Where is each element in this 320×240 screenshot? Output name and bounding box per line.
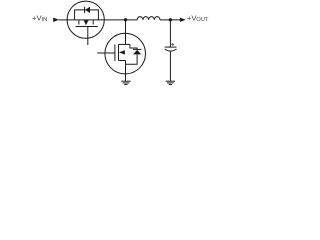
capacitor C1 plus sign — [171, 43, 174, 46]
output arrow — [180, 18, 186, 22]
Q1 body diode triangle — [85, 7, 90, 13]
Q2 body diode cathode bar — [133, 48, 142, 50]
ground (capacitor) — [166, 81, 176, 84]
Q1 gate bar — [76, 26, 98, 28]
Q2 body arrow — [119, 50, 125, 54]
input arrow — [53, 18, 59, 22]
transistor Q2 (N-channel MOSFET, low side) circle — [105, 33, 146, 74]
Q1 gate lead — [87, 27, 89, 46]
capacitor C1 curved plate — [165, 49, 177, 51]
wire capacitor to ground — [169, 51, 171, 81]
wire Q1 to inductor — [104, 19, 137, 21]
Q1 drain contact tick — [92, 20, 94, 24]
Q2 channel line — [118, 44, 120, 60]
capacitor C1 top plate — [165, 46, 177, 48]
wire Q2 source to ground — [125, 61, 127, 81]
inductor L1 — [137, 17, 160, 20]
Q2 body diode connection (drain side) — [130, 44, 137, 49]
wire VOUT node down to capacitor — [169, 20, 171, 47]
svg-text:IN: IN — [42, 17, 48, 23]
label +VOUT — [187, 13, 209, 23]
Q1 source contact tick — [78, 20, 80, 24]
Q2 source stub — [119, 60, 126, 62]
Q1 body diode loop — [75, 10, 99, 20]
Q2 body diode triangle — [133, 50, 141, 55]
node SW junction dot — [124, 18, 127, 21]
Q2 gate bar — [114, 45, 116, 62]
node VOUT junction dot — [169, 18, 172, 21]
ground (Q2 source) — [121, 81, 130, 84]
wire inductor to output — [160, 19, 181, 21]
label +VIN — [32, 13, 47, 23]
wire VIN arrow to Q1 circle — [59, 19, 68, 21]
Q1 body arrow — [84, 20, 89, 25]
Q2 drain stub — [119, 43, 130, 45]
transistor Q1 (P-channel MOSFET, high side) circle — [67, 1, 104, 38]
Q1 body diode cathode bar — [84, 7, 86, 13]
Q2 gate lead — [97, 52, 115, 54]
svg-text:OUT: OUT — [196, 17, 209, 23]
Q2 body diode connection (source side) — [126, 54, 138, 64]
wire: source-drain rail through Q1 — [67, 19, 104, 21]
wire SW node down into Q2 (drain lead) — [125, 20, 127, 45]
